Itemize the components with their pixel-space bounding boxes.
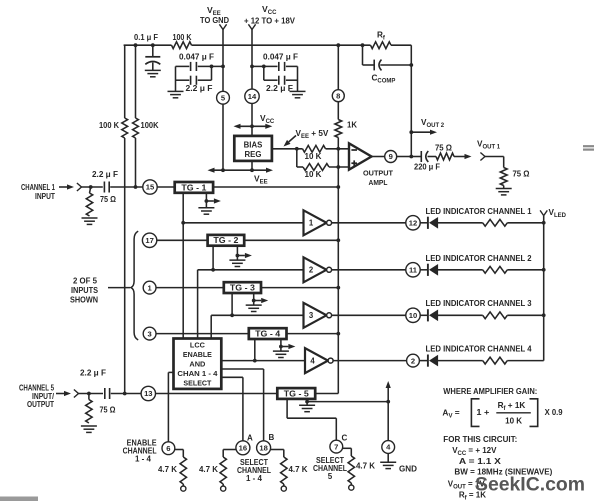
pin 11	[406, 263, 420, 277]
wire pin8 to 1K	[337, 102, 339, 120]
wire pin8 vertical upper	[337, 45, 339, 90]
svg-text:8: 8	[336, 91, 340, 100]
svg-text:A: A	[247, 434, 253, 443]
svg-text:C: C	[342, 434, 348, 443]
arrow Vout2	[411, 131, 430, 133]
transmission gate TG-3	[224, 282, 261, 293]
junction VLED / LED2	[542, 268, 546, 272]
buffer 3	[304, 303, 327, 328]
wire pin11 to LED	[420, 269, 428, 271]
junction top rail / 0.1uF	[151, 43, 155, 47]
ground TG-5	[299, 399, 315, 412]
label CHANNEL 5 INPUT/OUTPUT	[19, 384, 55, 410]
resistor 100K B	[133, 118, 139, 138]
wire buffer2 input riser	[198, 270, 304, 339]
wire bias reg output	[272, 148, 303, 150]
svg-text:+ 12 TO + 18V: + 12 TO + 18V	[244, 17, 296, 26]
wire LED2 to resistor	[437, 269, 482, 271]
wire VEE vertical to pin 5	[222, 30, 224, 171]
svg-text:75 Ω: 75 Ω	[100, 195, 117, 204]
wire TG-4 control	[254, 339, 256, 361]
svg-text:TG - 4: TG - 4	[255, 329, 281, 338]
svg-text:100K: 100K	[141, 121, 159, 130]
junction bias output node	[295, 147, 299, 151]
svg-text:TO GND: TO GND	[200, 16, 229, 25]
wire LCC to enable pin 6	[168, 372, 173, 442]
capacitor network 0.047uF/2.2uF (VEE)	[176, 62, 212, 92]
svg-text:0.047 μ F: 0.047 μ F	[179, 52, 214, 61]
ground arrow TG-2	[229, 246, 252, 267]
wire load resistor to ground	[503, 186, 505, 189]
ground below 0.1uF	[145, 70, 161, 76]
wire buffer4 output to pin2	[333, 360, 407, 362]
wire buffer3 output to pin10	[332, 314, 408, 316]
LED channel 2	[427, 264, 429, 276]
svg-text:220 μ F: 220 μ F	[414, 163, 440, 172]
resistor LED4	[483, 357, 508, 364]
pin 1	[143, 281, 156, 294]
svg-text:2: 2	[309, 266, 314, 275]
svg-text:0.1 μ F: 0.1 μ F	[134, 33, 158, 42]
svg-text:10 K: 10 K	[505, 417, 522, 426]
junction bus / TG-4 output	[336, 332, 340, 336]
transmission gate TG-2	[208, 235, 245, 246]
junction VEE line / network	[221, 65, 225, 69]
svg-text:AND: AND	[189, 360, 206, 369]
wire Rf right corner down	[410, 45, 412, 156]
svg-text:3: 3	[309, 311, 314, 320]
arrow channel5 input	[56, 393, 64, 395]
wire upper 10K to op-amp	[326, 148, 350, 150]
junction bus / upper 10K	[336, 147, 340, 151]
resistor 1K	[335, 120, 342, 138]
wire LED1 resistor to VLED bus	[507, 222, 543, 224]
wire LED4 to resistor	[437, 360, 482, 362]
wire LED3 to resistor	[437, 314, 482, 316]
junction Vout2 tap	[409, 130, 413, 134]
VCC distribution arrow	[234, 124, 273, 129]
svg-text:BIAS: BIAS	[244, 140, 263, 149]
svg-text:2.2 μ F: 2.2 μ F	[80, 369, 106, 378]
resistor LED2	[483, 266, 508, 273]
junction VCC line / network	[250, 65, 254, 69]
junction TG-3 control / buffer3 line	[230, 313, 234, 317]
svg-text:5: 5	[328, 472, 333, 481]
LED channel 4	[427, 355, 429, 367]
wire LCC to pin 16 select A	[221, 377, 243, 441]
junction bus / TG-1 output	[336, 185, 340, 189]
wire LED1 to resistor	[437, 222, 482, 224]
junction bus / TG-3 output	[336, 286, 340, 290]
buffer 4	[305, 348, 328, 373]
transmission gate TG-1	[175, 182, 213, 193]
transmission gate TG-4	[249, 328, 287, 339]
svg-text:REG: REG	[245, 150, 262, 159]
resistor 75ohm channel1	[86, 193, 92, 216]
transmission gate TG-5	[277, 388, 315, 399]
junction bus / lower 10K	[336, 165, 340, 169]
svg-text:GND: GND	[399, 465, 417, 474]
svg-text:1 +: 1 +	[476, 408, 489, 417]
junction VCC arrow	[250, 124, 254, 128]
connector VCC input	[248, 24, 252, 29]
svg-text:ENABLE: ENABLE	[183, 350, 212, 359]
capacitor 2.2uF channel5	[105, 388, 110, 399]
wire buffer1 input	[183, 222, 303, 224]
wire 100K vertical A	[124, 45, 126, 393]
svg-text:LED INDICATOR CHANNEL 4: LED INDICATOR CHANNEL 4	[426, 345, 533, 354]
junction top rail / Ccomp branch	[361, 43, 365, 47]
pin 5	[217, 91, 230, 104]
junction channel5 / 100K A	[123, 392, 127, 396]
svg-text:B: B	[269, 433, 275, 442]
wire pin9 to output node	[397, 156, 412, 158]
svg-text:LCC: LCC	[190, 341, 206, 350]
svg-text:2.2 μ F: 2.2 μ F	[266, 84, 293, 93]
connector VEE input	[219, 24, 223, 29]
svg-text:OUTPUT: OUTPUT	[27, 400, 54, 409]
svg-text:TG - 3: TG - 3	[230, 283, 256, 292]
svg-text:INPUT: INPUT	[35, 192, 55, 201]
junction network right corner	[210, 65, 214, 69]
buffer 1	[304, 210, 327, 235]
pin 15	[143, 180, 157, 194]
junction VLED corner	[542, 221, 546, 225]
pin 2	[407, 354, 420, 367]
pin 7	[330, 440, 343, 453]
resistor 75ohm series	[436, 153, 454, 160]
wire pin4 to ground	[387, 453, 389, 462]
wire pin3 to TG-4	[156, 333, 249, 335]
pin 13	[141, 386, 155, 400]
svg-text:4.7 K: 4.7 K	[199, 465, 218, 474]
svg-text:75 Ω: 75 Ω	[435, 144, 453, 153]
wire LCC to pin 18 select B	[221, 369, 263, 441]
net VEE label	[200, 5, 229, 25]
wire pin2 to LED	[419, 360, 428, 362]
junction bus / TG-2 output	[336, 238, 340, 242]
svg-text:TG - 2: TG - 2	[213, 236, 239, 245]
svg-text:4.7 K: 4.7 K	[158, 465, 177, 474]
svg-text:LED INDICATOR CHANNEL 2: LED INDICATOR CHANNEL 2	[426, 254, 533, 263]
ground at pin 4	[380, 462, 396, 468]
label VEE + 5V	[296, 129, 329, 140]
junction TG-2 control / buffer2 line	[211, 268, 215, 272]
wire pin12 to LED	[420, 222, 428, 224]
wire TG-2 output to bus	[244, 239, 338, 241]
wire TG-1 output to bus	[213, 186, 338, 188]
watermark equals artifact	[583, 146, 594, 149]
ground channel5	[81, 426, 97, 432]
svg-text:AMPL: AMPL	[369, 178, 388, 187]
svg-text:TG - 5: TG - 5	[284, 389, 310, 398]
svg-text:FOR THIS CIRCUIT:: FOR THIS CIRCUIT:	[443, 435, 517, 444]
wire VOUT1 to load	[485, 157, 504, 168]
wire LED4 resistor to VLED bus	[507, 360, 543, 362]
svg-text:11: 11	[409, 266, 418, 275]
wire 100K vertical B	[135, 45, 137, 187]
LED channel 3	[427, 309, 429, 321]
svg-text:LED INDICATOR CHANNEL 1: LED INDICATOR CHANNEL 1	[426, 207, 533, 216]
arrow channel1 input	[59, 186, 67, 188]
buffer 2	[304, 257, 327, 282]
ground channel1	[82, 218, 98, 224]
resistor 4.7K at pin7	[343, 448, 355, 490]
svg-text:1: 1	[309, 219, 314, 228]
wire lower 10K to op-amp	[329, 166, 349, 168]
svg-text:9: 9	[389, 152, 393, 161]
ground below left network	[168, 91, 184, 97]
wire top rail	[124, 44, 412, 46]
svg-text:15: 15	[146, 183, 155, 192]
junction TG-4 control / buffer4 line	[253, 359, 257, 363]
wire pin13 to TG-5	[156, 393, 278, 395]
wire channel1 input	[82, 186, 143, 188]
label SELECT CHANNEL 5	[313, 456, 347, 481]
wire channel5 input	[79, 393, 142, 395]
resistor 10K lower	[303, 164, 329, 171]
resistor 100K A	[122, 118, 128, 138]
connector VOUT1	[480, 153, 485, 157]
resistor Rf	[371, 42, 392, 49]
svg-text:0.047 μ F: 0.047 μ F	[263, 52, 298, 61]
pin 9	[385, 151, 397, 163]
label OUTPUT AMPL	[363, 169, 393, 187]
svg-text:SELECT: SELECT	[183, 379, 211, 388]
wire pin15 to TG-1	[157, 186, 175, 188]
resistor 100K (top)	[172, 42, 192, 49]
svg-text:1 - 4: 1 - 4	[246, 474, 263, 483]
svg-text:3: 3	[147, 329, 151, 338]
wire TG-3 output to bus	[261, 287, 338, 289]
junction output node	[409, 155, 413, 159]
pin 12	[406, 216, 420, 230]
resistor LED3	[483, 312, 508, 319]
svg-text:CHANNEL 1: CHANNEL 1	[21, 183, 55, 192]
wire ch1 resistor stub	[90, 187, 91, 193]
resistor 75ohm load	[500, 168, 507, 186]
arrow VEE+5V pointer	[289, 136, 296, 142]
VEE distribution arrow	[208, 168, 274, 173]
wire ch5 resistor stub	[88, 394, 90, 400]
label ENABLE CHANNEL 1-4	[123, 438, 158, 463]
svg-text:SeekIC.com: SeekIC.com	[475, 474, 585, 496]
label SELECT CHANNEL 1-4	[237, 458, 271, 483]
svg-text:100 K: 100 K	[173, 33, 192, 42]
svg-text:A = 1.1 X: A = 1.1 X	[459, 457, 502, 466]
svg-text:12: 12	[409, 219, 417, 228]
ground arrow TG-3	[246, 293, 269, 312]
wire bias reg bottom to VEE rail	[251, 161, 253, 170]
wire 1K to bus	[337, 138, 339, 394]
junction network left corner	[262, 65, 266, 69]
connector channel5	[74, 390, 79, 394]
svg-text:2.2 μ F: 2.2 μ F	[92, 170, 118, 179]
svg-text:1 - 4: 1 - 4	[135, 454, 152, 463]
pin 17	[142, 233, 156, 247]
svg-text:2 OF 5: 2 OF 5	[73, 277, 98, 286]
svg-text:X 0.9: X 0.9	[545, 408, 563, 417]
net VCC label	[244, 4, 296, 26]
formula Av	[442, 399, 563, 427]
resistor 4.7K at pin18	[271, 450, 287, 492]
wire bias node to lower 10K	[297, 166, 303, 168]
brace 2-of-5 inputs	[131, 231, 138, 340]
svg-text:13: 13	[144, 389, 152, 398]
svg-text:10: 10	[409, 311, 417, 320]
svg-text:6: 6	[166, 444, 170, 453]
junction channel1 / 75ohm	[89, 185, 93, 189]
resistor 4.7K at pin6	[175, 450, 187, 492]
svg-text:18: 18	[259, 444, 267, 453]
wire VLED bus	[543, 216, 545, 361]
junction Ccomp / Rf right	[409, 63, 413, 67]
wire network to VEE line	[212, 65, 224, 67]
svg-text:75 Ω: 75 Ω	[100, 406, 117, 415]
svg-text:4.7 K: 4.7 K	[356, 462, 375, 471]
pin 8	[332, 90, 344, 102]
junction channel1 / 100K B	[134, 185, 138, 189]
wire label to brace	[108, 287, 130, 289]
resistor 10K upper	[303, 145, 326, 152]
wire buffer2 output to pin11	[332, 269, 408, 271]
svg-text:75 Ω: 75 Ω	[513, 170, 531, 179]
svg-text:TG - 1: TG - 1	[181, 183, 207, 192]
capacitor 2.2uF channel1	[104, 182, 109, 193]
pin 18	[257, 441, 271, 455]
svg-text:WHERE AMPLIFIER GAIN:: WHERE AMPLIFIER GAIN:	[443, 387, 537, 396]
bias regulator U-BIAS	[234, 136, 272, 161]
wire TG-2 control	[212, 246, 214, 270]
resistor 75ohm channel5	[86, 400, 92, 424]
wire GND pin vertical with up arrow	[386, 381, 391, 441]
svg-text:17: 17	[145, 236, 153, 245]
wire buffer1 output to pin12	[332, 222, 408, 224]
pin 16	[236, 441, 250, 455]
junction VLED / LED3	[542, 313, 546, 317]
svg-text:16: 16	[239, 444, 247, 453]
junction VEE arrow / bias reg	[250, 168, 254, 172]
resistor LED1	[483, 219, 508, 226]
svg-text:14: 14	[248, 92, 257, 101]
wire op-amp output	[372, 156, 385, 158]
svg-text:4.7 K: 4.7 K	[289, 465, 308, 474]
arrow to VOUT1	[454, 156, 465, 158]
op-amp OUTPUT AMPL	[349, 143, 372, 169]
wire Ccomp branch	[363, 45, 412, 65]
wire TG-3 control	[231, 293, 233, 315]
svg-text:10 K: 10 K	[305, 170, 322, 179]
label 2 OF 5 INPUTS SHOWN	[70, 277, 99, 305]
ground below right network	[290, 91, 306, 97]
svg-text:CHAN 1 - 4: CHAN 1 - 4	[177, 369, 218, 378]
svg-text:2: 2	[411, 356, 415, 365]
capacitor 220uF	[411, 151, 436, 162]
wire TG-4 output to bus	[287, 333, 339, 335]
junction TG-1 control / buffer1 line	[181, 221, 185, 225]
pin 4	[382, 441, 395, 454]
LCC enable and select logic	[174, 339, 222, 389]
resistor 4.7K at pin16	[220, 450, 236, 492]
LED channel 1	[427, 217, 429, 229]
capacitor 0.1uF	[145, 45, 160, 70]
svg-text:100 K: 100 K	[99, 121, 119, 130]
wire VCC vertical to pin 14	[251, 30, 253, 136]
pin 14	[245, 89, 259, 103]
junction channel5 / 75ohm	[87, 392, 91, 396]
wire pin1 to TG-3	[156, 287, 224, 289]
wire TG-1 control to LCC	[182, 193, 184, 339]
wire VCC line to network	[252, 65, 264, 67]
wire LED3 resistor to VLED bus	[507, 314, 543, 316]
wire pin17 to TG-2	[157, 239, 208, 241]
wire buffer3 input riser	[211, 315, 303, 338]
wire TG-5 output to bus	[315, 393, 338, 395]
capacitor network 0.047uF/2.2uF (VCC)	[264, 62, 298, 92]
svg-text:SHOWN: SHOWN	[70, 296, 98, 305]
svg-text:4: 4	[310, 357, 315, 366]
svg-text:OUTPUT: OUTPUT	[363, 169, 393, 178]
label CHANNEL 1 INPUT	[21, 183, 55, 201]
ground arrow TG-1	[198, 193, 221, 214]
pin 6	[162, 442, 175, 455]
wire pin10 to LED	[420, 314, 428, 316]
wire buffer4 input from LCC	[221, 360, 305, 362]
svg-text:2.2 μ F: 2.2 μ F	[186, 84, 213, 93]
junction GND vertical / TG-5 ground line	[386, 400, 390, 404]
pin 10	[406, 308, 420, 322]
wire TG-5 ground node to GND pin	[307, 401, 388, 403]
ground below 75ohm load	[496, 189, 512, 195]
pin 3	[143, 327, 156, 340]
svg-text:1K: 1K	[347, 121, 357, 130]
svg-text:10 K: 10 K	[305, 152, 322, 161]
junction top rail / 100K vertical B	[134, 43, 138, 47]
wire LED2 resistor to VLED bus	[507, 269, 543, 271]
ground arrow TG-4	[273, 339, 296, 358]
connector VLED	[540, 210, 544, 215]
junction VEE arrow / pin5 line	[221, 168, 225, 172]
capacitor Ccomp	[374, 60, 381, 71]
svg-text:INPUTS: INPUTS	[71, 286, 99, 295]
svg-text:7: 7	[334, 442, 338, 451]
watermark corner smudge	[0, 497, 38, 501]
wire bias node vertical	[296, 149, 298, 167]
svg-text:LED INDICATOR CHANNEL 3: LED INDICATOR CHANNEL 3	[426, 299, 533, 308]
connector channel1	[77, 183, 82, 187]
junction top rail / 1K branch	[336, 43, 340, 47]
wire TG-5 control to pin 7	[287, 399, 336, 440]
junction TG-5 ground node	[305, 400, 309, 404]
